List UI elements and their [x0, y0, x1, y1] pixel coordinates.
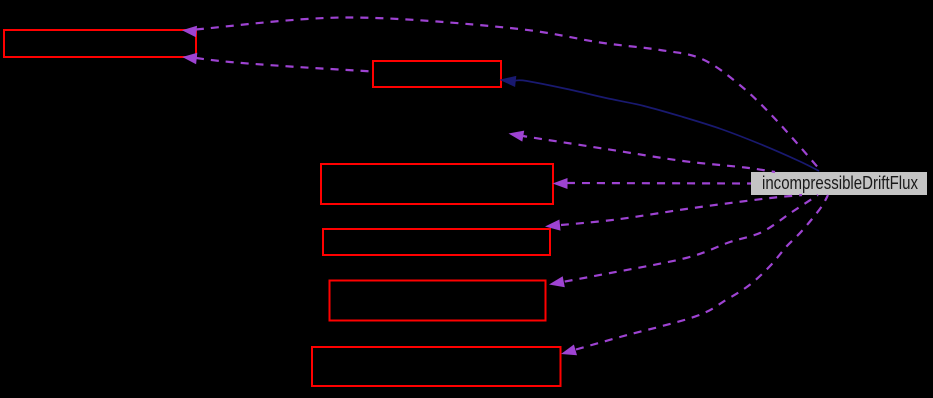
svg-text:incompressibleDriftFlux: incompressibleDriftFlux — [762, 173, 918, 193]
